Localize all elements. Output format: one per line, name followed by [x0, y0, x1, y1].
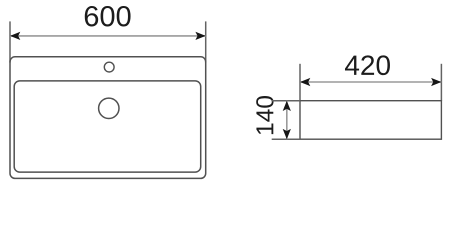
drain hole: [99, 98, 119, 118]
arrowhead right (600): [195, 32, 205, 40]
extension line bottom (140): [272, 138, 300, 140]
extension line left (420): [299, 64, 301, 101]
extension line top (140): [272, 100, 300, 102]
extension line right (420): [440, 64, 442, 101]
arrowhead right (420): [431, 78, 441, 86]
extension line right (600): [205, 21, 207, 62]
dimension line 600: [10, 35, 206, 37]
sink outer rim (top view): [10, 57, 206, 179]
dimension text 420: [345, 55, 390, 75]
dimension text 140 (rotated): [256, 96, 273, 134]
sink basin inner outline: [14, 81, 201, 172]
arrowhead down (140): [283, 129, 291, 139]
arrowhead left (420): [300, 78, 310, 86]
dimension text 600: [85, 6, 131, 27]
faucet hole: [104, 62, 114, 72]
dimension line 140: [286, 101, 288, 140]
extension line left (600): [9, 21, 11, 62]
arrowhead left (600): [10, 32, 20, 40]
basin side view rectangle: [300, 101, 441, 140]
dimension line 420: [300, 81, 441, 83]
arrowhead up (140): [283, 101, 291, 111]
